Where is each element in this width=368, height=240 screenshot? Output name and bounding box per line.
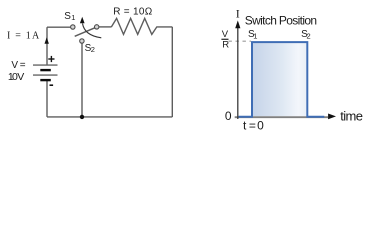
svg-text:2: 2	[91, 45, 95, 54]
svg-text:I: I	[236, 7, 240, 21]
svg-text:1: 1	[253, 32, 257, 41]
svg-text:V: V	[222, 29, 229, 40]
svg-text:I = 1A: I = 1A	[7, 31, 40, 42]
svg-text:0: 0	[257, 118, 264, 132]
svg-text:0: 0	[225, 109, 232, 123]
svg-text:1: 1	[71, 13, 75, 22]
svg-text:V: V	[11, 60, 18, 71]
svg-text:2: 2	[307, 32, 311, 41]
svg-text:Switch Position: Switch Position	[245, 13, 317, 27]
svg-text:=: =	[249, 118, 256, 132]
svg-text:S: S	[64, 11, 71, 22]
svg-text:V: V	[17, 71, 24, 83]
svg-text:=: =	[20, 60, 26, 71]
svg-text:time: time	[340, 108, 363, 123]
svg-text:R: R	[222, 40, 229, 51]
svg-text:t: t	[243, 118, 247, 132]
svg-text:R = 10Ω: R = 10Ω	[113, 6, 153, 17]
